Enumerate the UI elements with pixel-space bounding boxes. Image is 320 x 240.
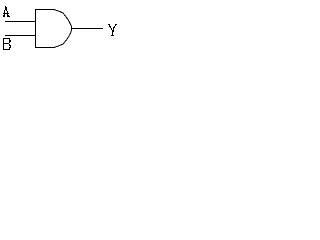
node Y label xyxy=(108,24,117,36)
AND gate U1 arc top half xyxy=(55,10,72,31)
node A label xyxy=(3,6,10,17)
AND gate U1 bottom edge xyxy=(35,47,55,49)
AND gate U1 arc bottom half xyxy=(55,31,72,48)
wire output Y xyxy=(72,28,104,30)
AND gate U1 top edge xyxy=(35,9,55,11)
wire input A xyxy=(5,21,36,23)
node B label xyxy=(3,38,11,50)
wire input B xyxy=(5,35,36,37)
AND gate U1 left edge xyxy=(35,9,37,48)
